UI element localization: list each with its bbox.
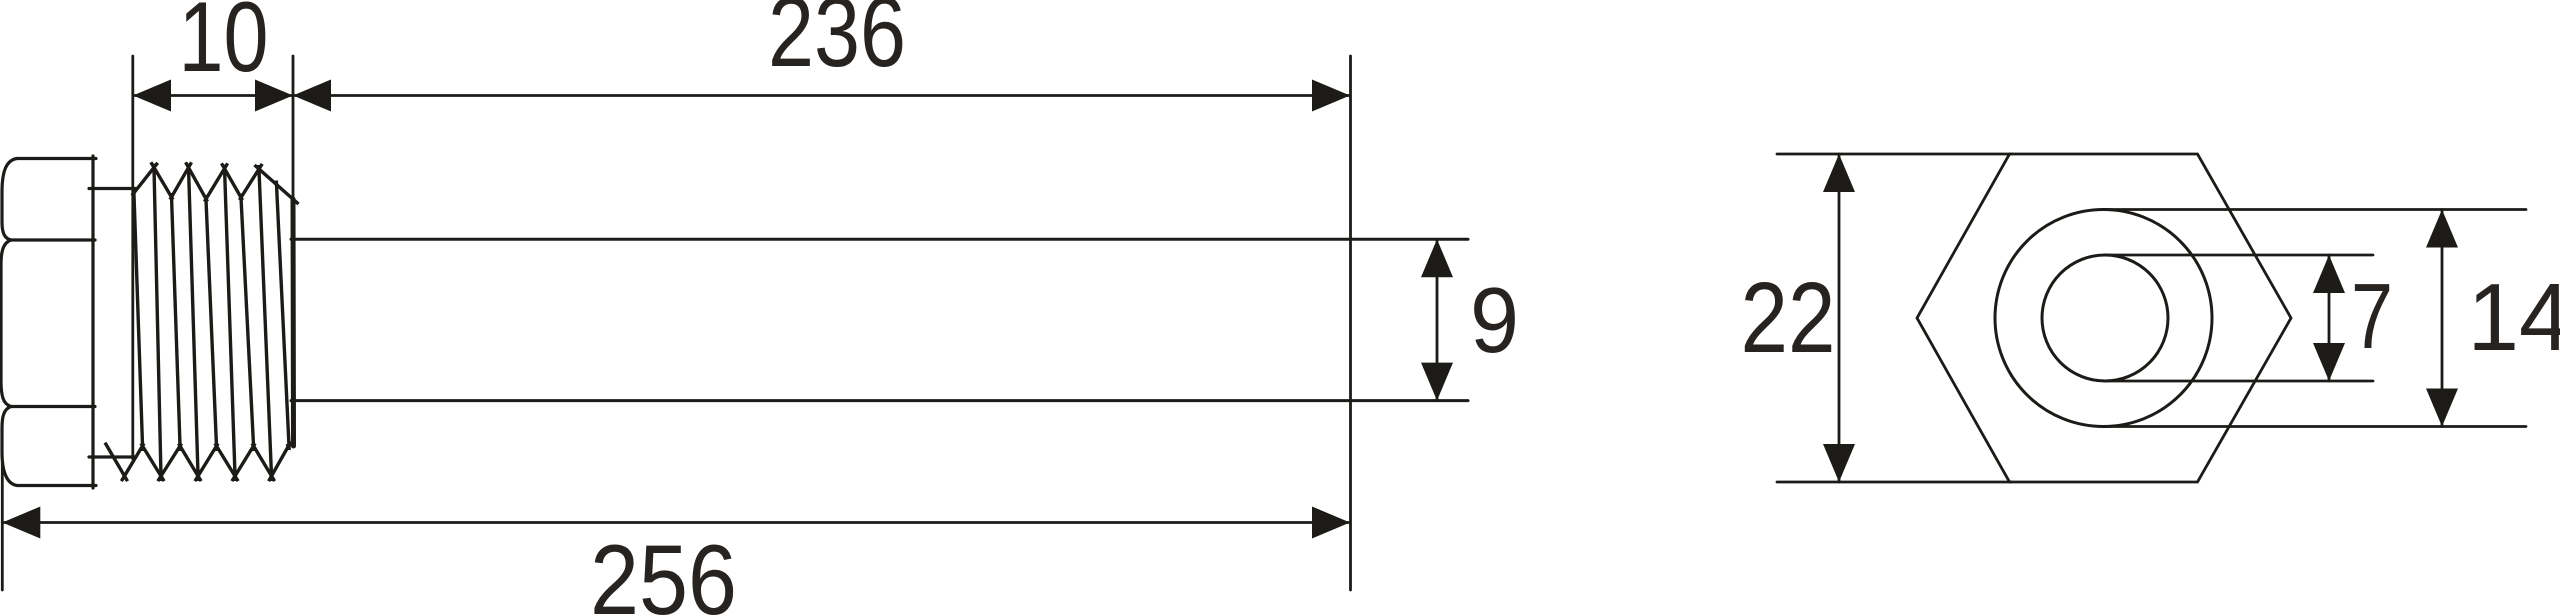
svg-text:22: 22 bbox=[1741, 262, 1836, 374]
svg-text:10: 10 bbox=[179, 0, 269, 92]
svg-text:9: 9 bbox=[1470, 268, 1519, 372]
end view hexagon bbox=[1917, 154, 2291, 482]
svg-text:7: 7 bbox=[2351, 264, 2393, 368]
thread start boundary / extension line of dim 10 bbox=[131, 56, 134, 459]
end view inner bore circle bbox=[2042, 255, 2168, 381]
extension line tube end bbox=[1349, 56, 1352, 590]
dimension 14 extension lines bbox=[2104, 210, 2527, 427]
dimension 9 bbox=[1421, 239, 1453, 400]
svg-text:236: 236 bbox=[768, 0, 906, 87]
dimension 10 bbox=[133, 80, 293, 112]
thread flank lines bbox=[134, 164, 289, 482]
hex head facet lines bbox=[9, 240, 95, 407]
end view outer circle bbox=[1995, 210, 2212, 427]
tube top edge with dim 9 extension bbox=[291, 238, 1468, 241]
dimension 236 bbox=[293, 80, 1350, 112]
svg-text:256: 256 bbox=[590, 524, 737, 615]
washer collar bbox=[89, 189, 136, 458]
hex head side view outline bbox=[1, 156, 96, 488]
dimension 256 bbox=[2, 507, 1350, 539]
extension line of dim 236 at thread end bbox=[292, 56, 295, 210]
thread crest profile bottom bbox=[105, 442, 295, 482]
extension line head left for dim 256 bbox=[1, 462, 4, 590]
svg-text:14: 14 bbox=[2468, 264, 2560, 371]
dimension 14 bbox=[2426, 210, 2458, 427]
dimension 22 extension lines bbox=[1777, 154, 2012, 482]
dimension 22 bbox=[1823, 154, 1855, 482]
thread end face bbox=[291, 199, 297, 446]
dimension 7 bbox=[2313, 255, 2345, 381]
dimension 7 extension lines bbox=[2105, 255, 2373, 381]
thread crest profile top bbox=[132, 162, 299, 204]
tube bottom edge with dim 9 extension bbox=[291, 399, 1468, 402]
